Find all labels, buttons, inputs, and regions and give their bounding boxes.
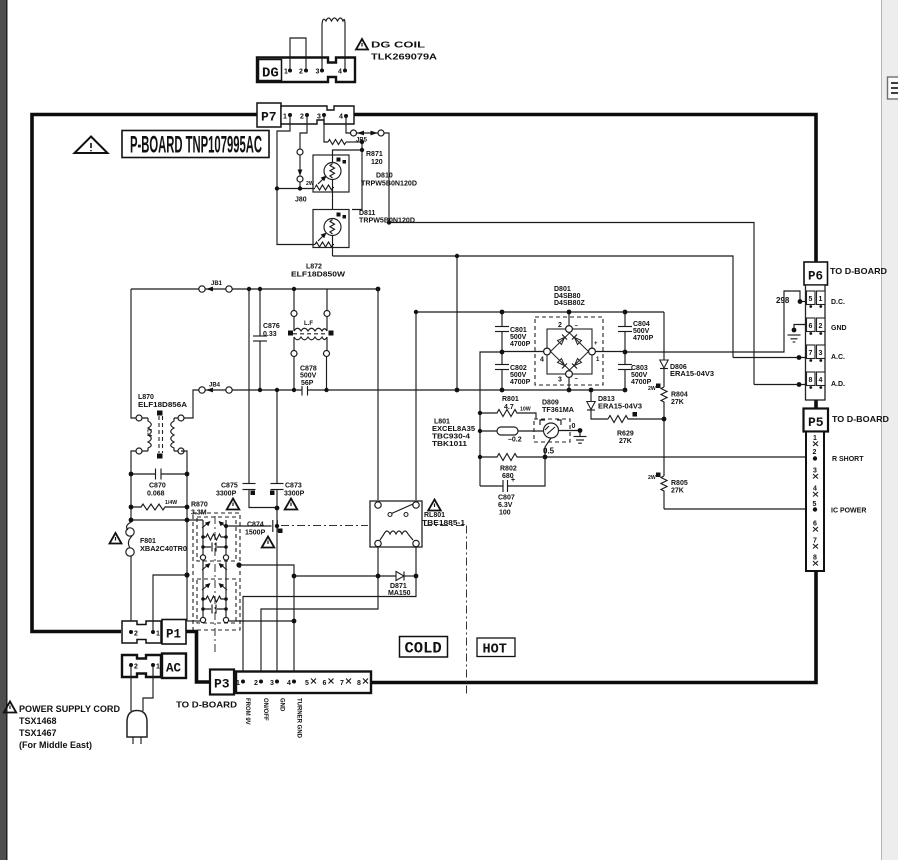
- wire: A.D. rail to P6: [389, 223, 754, 385]
- capacitor C804: [624, 312, 626, 352]
- label COLD: [400, 637, 448, 658]
- warning triangle F801: [110, 533, 122, 544]
- svg-text:3: 3: [558, 377, 562, 384]
- svg-text:JB1: JB1: [211, 281, 223, 287]
- warning triangle RL801: [428, 500, 441, 511]
- wire: thick stub P6 to P5: [814, 400, 818, 410]
- capacitor C802: [501, 352, 503, 390]
- svg-text:4700P: 4700P: [631, 379, 652, 386]
- ground P6: [788, 334, 801, 336]
- svg-text:L801: L801: [434, 419, 450, 426]
- svg-text:C801: C801: [510, 327, 527, 334]
- svg-text:2W: 2W: [648, 386, 656, 392]
- svg-text:4700P: 4700P: [510, 379, 531, 386]
- wire: relay coil legs down: [378, 547, 416, 576]
- wire: left AC line to JB1: [131, 288, 199, 290]
- connector P6: [804, 262, 828, 285]
- svg-text:3: 3: [316, 69, 320, 76]
- svg-text:R805: R805: [671, 480, 688, 487]
- svg-text:XBA2C40TR0: XBA2C40TR0: [140, 546, 187, 553]
- svg-text:R870: R870: [191, 502, 208, 509]
- svg-text:(For Middle East): (For Middle East): [19, 740, 92, 750]
- svg-text:C875: C875: [221, 483, 238, 490]
- warning triangle DG coil: [356, 39, 368, 50]
- wire: P3 pin2 to relay coil: [261, 576, 378, 672]
- svg-text:4: 4: [338, 69, 342, 76]
- wire: C875 branch from rail1: [248, 289, 250, 483]
- svg-text:P-BOARD TNP107995AC: P-BOARD TNP107995AC: [130, 132, 262, 159]
- svg-text:100: 100: [499, 510, 511, 517]
- wire: R871 to node: [346, 141, 362, 143]
- wire: degauss tap to AC line2: [456, 256, 458, 391]
- svg-text:A.D.: A.D.: [831, 381, 845, 388]
- svg-text:6.3V: 6.3V: [498, 502, 513, 509]
- D810 heater resistor: [315, 185, 334, 190]
- wire: IC POWER line to P5 pin5: [664, 508, 814, 510]
- svg-text:A.C.: A.C.: [831, 354, 845, 361]
- svg-text:P7: P7: [261, 110, 277, 125]
- capacitor C870: [131, 473, 187, 475]
- diode D871: [294, 575, 396, 577]
- wire: JB5 to A.D. rail: [384, 133, 389, 223]
- svg-text:2: 2: [254, 680, 258, 687]
- DG coil winding: [322, 18, 345, 69]
- P6 pins 5/1 D.C.: [807, 291, 816, 305]
- svg-text:ELF18D856A: ELF18D856A: [138, 402, 187, 409]
- surge bottom unit capacitor: [203, 608, 226, 610]
- wire: D811 bottom to A.C. rail: [332, 236, 334, 257]
- surge bottom unit arrows: [202, 584, 209, 590]
- P6 pins 6/2 GND: [807, 318, 816, 332]
- wire: thick line P3 to P5 (HOT return): [371, 571, 816, 683]
- svg-text:4: 4: [819, 377, 823, 384]
- wire: P7 pin4 to JB5: [346, 116, 350, 133]
- diode D806: [663, 312, 665, 360]
- svg-text:JB4: JB4: [209, 383, 221, 389]
- svg-text:27K: 27K: [619, 438, 632, 445]
- surge top unit arrows: [202, 522, 209, 528]
- svg-text:RL801: RL801: [424, 512, 445, 519]
- svg-text:C802: C802: [510, 365, 527, 372]
- svg-text:2: 2: [300, 114, 304, 121]
- svg-text:4: 4: [339, 114, 343, 121]
- svg-text:ELF18D850W: ELF18D850W: [291, 272, 345, 279]
- svg-text:1500P: 1500P: [245, 530, 266, 537]
- wire: P7 pin1 to D811 heater: [277, 115, 315, 245]
- wire: AC pins to power cord: [130, 667, 132, 711]
- svg-text:1: 1: [156, 631, 160, 638]
- resistor R805: [663, 419, 665, 476]
- resistor R802: [480, 454, 545, 461]
- svg-text:2: 2: [134, 664, 138, 671]
- svg-text:500V: 500V: [510, 372, 527, 379]
- svg-text:+: +: [511, 477, 515, 484]
- warning triangle power cord: [4, 702, 16, 713]
- ground: [574, 436, 587, 438]
- wire: A.C. rail (y256) to P6: [333, 256, 734, 358]
- svg-text:500V: 500V: [510, 334, 527, 341]
- svg-text:2: 2: [134, 631, 138, 638]
- svg-text:C873: C873: [285, 483, 302, 490]
- svg-text:2: 2: [813, 449, 817, 456]
- svg-text:D871: D871: [390, 583, 407, 590]
- svg-text:0: 0: [572, 423, 576, 430]
- viewer scrollbar button: [888, 77, 898, 99]
- svg-text:D4SB80: D4SB80: [554, 293, 581, 300]
- wire: DC minus return to regulator: [480, 352, 502, 486]
- svg-text:8: 8: [357, 680, 361, 687]
- jumper JB4: [199, 387, 205, 393]
- D811 heater resistor: [315, 242, 334, 247]
- svg-text:4: 4: [540, 357, 544, 364]
- svg-text:TBC930-4: TBC930-4: [432, 434, 470, 441]
- wire: border top right segment: [354, 115, 816, 264]
- wire: D810 heater rail: [277, 188, 315, 190]
- resistor R871: [328, 140, 346, 145]
- wire: bridge top rail y312: [568, 311, 664, 313]
- svg-text:TO D-BOARD: TO D-BOARD: [830, 266, 887, 276]
- wire: P7 pin2 to J80: [300, 115, 307, 149]
- svg-text:56P: 56P: [301, 380, 314, 387]
- svg-text:3300P: 3300P: [216, 491, 237, 498]
- warning triangle C873: [285, 499, 298, 510]
- capacitor C801: [501, 312, 503, 352]
- svg-text:1: 1: [236, 680, 240, 687]
- wire: relay feed vertical x378: [377, 289, 379, 500]
- capacitor C876: [259, 289, 261, 336]
- wire: P3 pin1 to relay coil: [243, 576, 416, 672]
- svg-text:4: 4: [813, 486, 817, 493]
- svg-text:J80: J80: [295, 197, 307, 204]
- svg-text:C803: C803: [631, 365, 648, 372]
- svg-text:6: 6: [323, 680, 327, 687]
- svg-text:L.f: L.f: [146, 429, 152, 437]
- svg-text:TBE1885-1: TBE1885-1: [422, 520, 465, 527]
- svg-text:D809: D809: [542, 400, 559, 407]
- wire: D809 cathode to ground: [559, 431, 581, 437]
- resistor R870: [131, 504, 187, 510]
- svg-text:L870: L870: [138, 394, 154, 401]
- svg-text:C874: C874: [247, 522, 264, 529]
- svg-text:P5: P5: [808, 415, 824, 430]
- svg-text:R804: R804: [671, 392, 688, 399]
- posistor D811: [313, 210, 349, 248]
- svg-text:TURNER GND: TURNER GND: [296, 698, 302, 739]
- svg-text:1: 1: [819, 296, 823, 303]
- wire: AC line2 rail y390: [232, 389, 302, 391]
- line filter L872: [293, 289, 295, 310]
- svg-text:P6: P6: [808, 270, 823, 284]
- svg-text:AC: AC: [166, 662, 182, 676]
- svg-text:4700P: 4700P: [633, 335, 654, 342]
- svg-text:10W: 10W: [520, 407, 531, 413]
- svg-text:3: 3: [317, 114, 321, 121]
- bridge diode (top-left): [558, 338, 565, 345]
- svg-text:7: 7: [809, 350, 813, 357]
- bridge diode (top-right): [575, 338, 582, 345]
- warning triangle C875: [227, 499, 240, 510]
- svg-text:TRPW5B0N120D: TRPW5B0N120D: [359, 218, 415, 225]
- wire: D809 gate: [545, 438, 551, 457]
- wire: P7 pin3 to R871: [324, 115, 328, 142]
- resistor R629: [591, 410, 608, 419]
- relay RL801: [370, 501, 422, 547]
- P6 pin stubs: [809, 305, 822, 389]
- svg-text:TLK269079A: TLK269079A: [371, 52, 437, 62]
- wire: bridge top terminal: [568, 312, 570, 326]
- warning triangle C874: [262, 537, 275, 548]
- viewer right scrollbar strip: [881, 0, 898, 860]
- svg-text:C870: C870: [149, 483, 166, 490]
- COLD/HOT boundary dash-dot: [281, 525, 368, 527]
- svg-text:C876: C876: [263, 323, 280, 330]
- connector P1 plug: [122, 621, 161, 643]
- svg-text:2: 2: [299, 69, 303, 76]
- svg-text:P3: P3: [214, 677, 230, 692]
- connector P7 body: [257, 103, 281, 127]
- label HOT: [477, 638, 515, 657]
- wire: DC plus to P6 D.C.: [625, 291, 800, 352]
- surge bottom unit resistor: [202, 582, 204, 617]
- svg-text:2: 2: [558, 322, 562, 329]
- svg-text:C878: C878: [300, 366, 317, 373]
- P6 pins 8/4 A.D.: [807, 372, 816, 386]
- viewer left dark sidebar: [0, 0, 7, 860]
- bridge diode (bottom-right): [575, 359, 582, 366]
- svg-text:–0.2: –0.2: [508, 437, 522, 444]
- svg-text:TSX1467: TSX1467: [19, 728, 57, 738]
- svg-text:GND: GND: [279, 698, 285, 712]
- svg-text:P1: P1: [166, 628, 181, 642]
- capacitor C807: [480, 457, 545, 486]
- svg-text:6: 6: [809, 323, 813, 330]
- posistor D810: [313, 155, 349, 192]
- svg-text:F801: F801: [140, 538, 156, 545]
- svg-text:L872: L872: [306, 264, 322, 271]
- ferrite bead L801 on gate wire: [480, 430, 497, 432]
- svg-text:500V: 500V: [300, 373, 317, 380]
- wire: bridge right output: [596, 351, 626, 353]
- svg-text:C804: C804: [633, 321, 650, 328]
- svg-text:8: 8: [813, 555, 817, 562]
- bridge terminals: [566, 326, 573, 333]
- svg-text:2W: 2W: [306, 181, 314, 187]
- jumper JB1: [199, 286, 205, 292]
- surge absorber unit (dashed outer box): [193, 513, 240, 630]
- svg-text:4700P: 4700P: [510, 341, 531, 348]
- board title box P-BOARD TNP107995AC: [122, 131, 269, 158]
- svg-text:1: 1: [813, 435, 817, 442]
- svg-text:~: ~: [575, 377, 579, 383]
- wire: bridge left output: [502, 351, 544, 353]
- svg-text:ERA15-04V3: ERA15-04V3: [598, 404, 642, 411]
- svg-text:C807: C807: [498, 495, 515, 502]
- svg-text:DG COIL: DG COIL: [371, 40, 425, 50]
- svg-text:TRPW5B0N120D: TRPW5B0N120D: [361, 181, 417, 188]
- svg-text:27K: 27K: [671, 399, 684, 406]
- svg-text:D813: D813: [598, 396, 615, 403]
- svg-text:1: 1: [284, 69, 288, 76]
- wire: R SHORT line to P5 pin2: [545, 456, 814, 458]
- svg-text:5: 5: [813, 501, 817, 508]
- svg-text:500V: 500V: [631, 372, 648, 379]
- svg-text:2: 2: [819, 323, 823, 330]
- svg-text:4: 4: [287, 680, 291, 687]
- wire: thick line P1 to P3: [186, 632, 211, 683]
- wire: J80 to heater rail: [299, 182, 301, 189]
- bridge rectifier D801 (dashed box): [535, 317, 603, 385]
- svg-text:FROM 9V: FROM 9V: [244, 698, 250, 725]
- svg-text:3: 3: [819, 350, 823, 357]
- svg-text:+: +: [594, 341, 598, 347]
- capacitor C873: [276, 390, 278, 483]
- svg-text:GND: GND: [831, 325, 847, 332]
- svg-text:4.7: 4.7: [504, 404, 514, 411]
- capacitor C874: [226, 525, 272, 527]
- svg-text:TO D-BOARD: TO D-BOARD: [176, 700, 237, 710]
- line filter L870: [131, 289, 136, 418]
- svg-text:R SHORT: R SHORT: [832, 456, 864, 463]
- svg-text:1: 1: [156, 664, 160, 671]
- svg-text:2W: 2W: [648, 475, 656, 481]
- P-BOARD outline border (thick): [32, 115, 257, 632]
- svg-text:3: 3: [813, 468, 817, 475]
- svg-text:D806: D806: [670, 364, 687, 371]
- svg-text:1/4W: 1/4W: [165, 500, 177, 506]
- wire: D810 internals to node x362: [333, 150, 363, 163]
- svg-text:7: 7: [340, 680, 344, 687]
- svg-text:POWER SUPPLY CORD: POWER SUPPLY CORD: [19, 704, 120, 714]
- svg-text:TO D-BOARD: TO D-BOARD: [832, 414, 889, 424]
- wire: bridge bottom terminal: [568, 378, 570, 391]
- svg-text:R801: R801: [502, 396, 519, 403]
- connector P5: [804, 409, 829, 432]
- svg-text:7: 7: [813, 538, 817, 545]
- svg-text:6: 6: [813, 521, 817, 528]
- wire: DG jumper loop pins 1-2: [290, 38, 306, 69]
- jumper J80: [297, 149, 303, 155]
- wire: L870 to JB4: [181, 390, 199, 418]
- capacitor C875: [243, 483, 256, 485]
- svg-text:TF361MA: TF361MA: [542, 407, 574, 414]
- bridge diode (bottom-left): [558, 359, 565, 366]
- jumper JB5: [351, 130, 357, 136]
- wire: L870 right bottom to x187 chain: [181, 451, 187, 621]
- svg-text:5: 5: [809, 296, 813, 303]
- connector DG body: [257, 58, 355, 83]
- svg-text:R802: R802: [500, 466, 517, 473]
- svg-text:D801: D801: [554, 286, 571, 293]
- wire: relay return vertical x416 to bridge rail: [416, 312, 568, 500]
- svg-text:8: 8: [809, 377, 813, 384]
- svg-text:R629: R629: [617, 431, 634, 438]
- svg-text:0.33: 0.33: [263, 331, 277, 338]
- svg-text:500V: 500V: [633, 328, 650, 335]
- svg-text:D.C.: D.C.: [831, 299, 845, 306]
- svg-text:120: 120: [371, 159, 383, 166]
- capacitor C803: [624, 352, 626, 390]
- resistor R804: [663, 369, 665, 388]
- wire: y520 to surge unit: [131, 519, 203, 521]
- surge mid arrows: [202, 564, 209, 570]
- P6 pins 7/3 A.C.: [807, 345, 816, 359]
- power supply cord plug: [127, 711, 147, 738]
- svg-text:TBK1011: TBK1011: [432, 441, 467, 448]
- svg-text:D4SB80Z: D4SB80Z: [554, 300, 585, 307]
- wire: AC line1 rail y289: [232, 288, 378, 290]
- svg-text:ON/OFF: ON/OFF: [262, 698, 268, 721]
- wire: surge tap to D871 line: [239, 565, 294, 576]
- svg-text:DG: DG: [262, 66, 279, 82]
- wire: L870 left bottom down: [131, 451, 136, 522]
- svg-text:0.5: 0.5: [543, 447, 555, 456]
- svg-text:ERA15-04V3: ERA15-04V3: [670, 371, 714, 378]
- svg-text:TSX1468: TSX1468: [19, 716, 57, 726]
- svg-text:HOT: HOT: [483, 643, 507, 658]
- svg-text:1: 1: [283, 114, 287, 121]
- svg-text:COLD: COLD: [405, 640, 442, 658]
- svg-text:D811: D811: [359, 210, 375, 217]
- connector P3: [210, 670, 234, 695]
- fuse F801: [127, 522, 131, 530]
- svg-text:D810: D810: [376, 173, 393, 180]
- svg-text:5: 5: [305, 680, 309, 687]
- connector AC plug: [122, 655, 161, 677]
- svg-text:3300P: 3300P: [284, 491, 305, 498]
- svg-text:27K: 27K: [671, 488, 684, 495]
- svg-text:~: ~: [575, 324, 579, 330]
- surge top unit resistor: [202, 520, 204, 555]
- wire: P1 pin1 to x187 chain: [153, 575, 187, 632]
- svg-text:EXCEL8A35: EXCEL8A35: [432, 426, 475, 433]
- svg-text:L.F: L.F: [304, 321, 313, 327]
- svg-text:298: 298: [776, 296, 790, 305]
- svg-text:IC POWER: IC POWER: [831, 508, 866, 515]
- svg-text:R871: R871: [366, 151, 383, 158]
- svg-text:0.068: 0.068: [147, 491, 165, 498]
- svg-text:3: 3: [270, 680, 274, 687]
- wire: surge to TURNER GND line: [187, 620, 200, 622]
- surge top unit capacitor: [203, 546, 226, 548]
- diode D813: [590, 390, 592, 402]
- warning triangle (board title): [75, 137, 108, 154]
